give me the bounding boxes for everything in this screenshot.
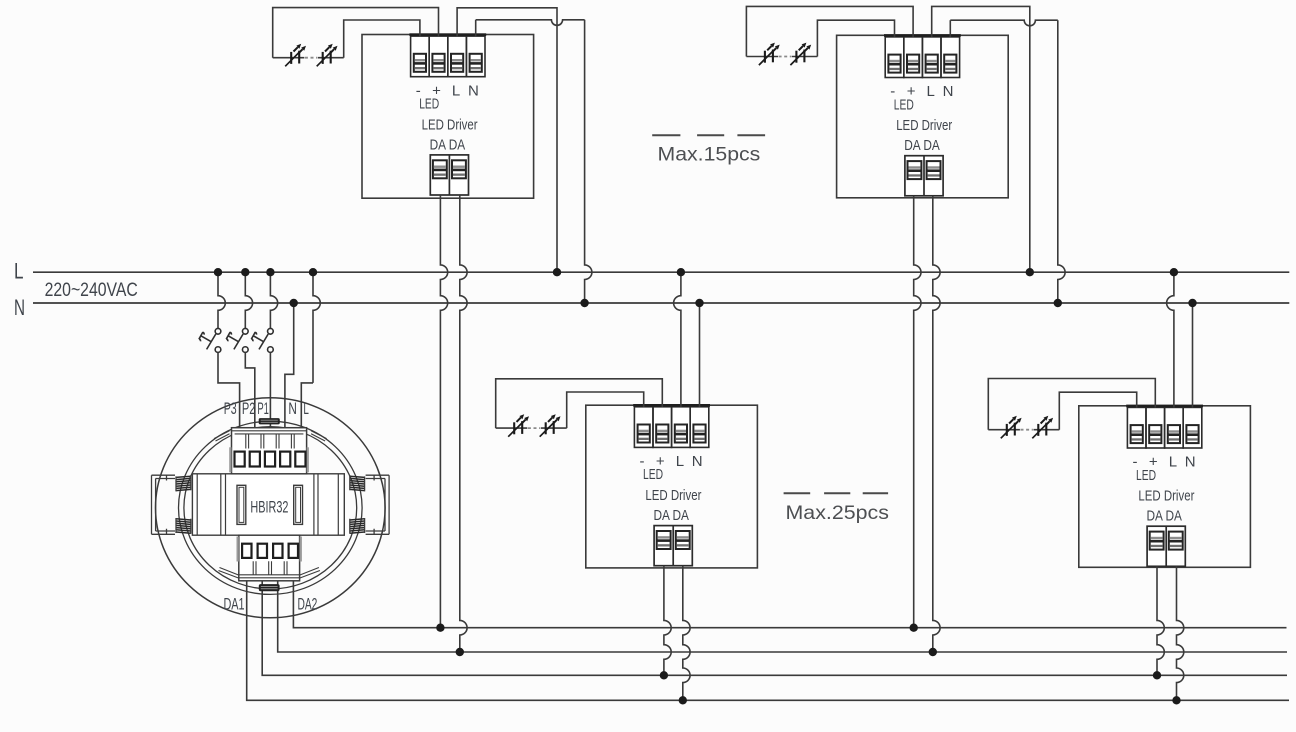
U3 DALI terminal block (DA DA) (654, 526, 692, 566)
wire switch S1 to sensor P3 terminal (218, 352, 240, 427)
U2 DALI terminal block (DA DA) (905, 156, 943, 196)
wire U2 LED+ loop (746, 6, 913, 56)
wire U2 LED- loop (817, 20, 894, 56)
wire U4 DA b down to DALI line 4 (1177, 566, 1184, 700)
svg-text:DA DA: DA DA (904, 137, 940, 154)
wire U2 L to bus (932, 6, 1030, 272)
svg-text:DA DA: DA DA (430, 136, 466, 153)
wire U1 DA a down to DALI line 1 (440, 195, 447, 628)
LED Driver U3 box (586, 405, 758, 568)
wire U2 DA b down to DALI line 2 (933, 196, 940, 652)
wire U3 DA a down to DALI line 3 (664, 566, 671, 676)
svg-text:HBIR32: HBIR32 (250, 498, 288, 517)
svg-text:LED: LED (894, 96, 914, 113)
U2 terminal labels - + L N (890, 83, 953, 100)
wire U1 N to bus (hops over L wire and L bus) (475, 20, 477, 37)
svg-text:N: N (288, 400, 297, 418)
LED Driver U1 box (362, 35, 534, 199)
wire U1 LED- loop (344, 20, 420, 58)
svg-text:LED: LED (1136, 467, 1156, 484)
L mains bus (33, 271, 1289, 273)
svg-text:P1: P1 (257, 400, 269, 418)
svg-text:L: L (303, 400, 309, 418)
junction dots on DALI line 1 (436, 624, 918, 632)
LED lamp string D7/D8 (U4) (988, 416, 1059, 439)
switch S3 (251, 328, 273, 352)
U1 terminal labels - + L N (416, 82, 479, 99)
svg-text:LED Driver: LED Driver (1138, 488, 1194, 505)
svg-text:DA1: DA1 (223, 596, 244, 614)
svg-text:220~240VAC: 220~240VAC (45, 280, 138, 301)
sensor central body (192, 474, 344, 535)
wire L bus to switch S2 (hops N bus) (245, 272, 252, 328)
junction dots on N bus (290, 299, 1197, 307)
sensor left mounting clip with springs (152, 475, 191, 534)
sensor lens slot right (294, 485, 303, 524)
wire U4 DA a down to DALI line 3 (1157, 566, 1164, 675)
svg-text:Max.25pcs: Max.25pcs (786, 502, 890, 524)
wire U2 DA a down to DALI line 1 (914, 196, 921, 628)
LED lamp string D1/D2 (U1) (273, 44, 344, 67)
wire U3 LED+ loop (496, 379, 663, 428)
switch S1 (199, 328, 221, 352)
wire L bus to switch S3 (hops N bus) (270, 272, 277, 328)
wire U4 N from bus (1192, 303, 1194, 408)
LED Driver U4 box (1079, 406, 1251, 568)
svg-text:LED Driver: LED Driver (645, 487, 701, 504)
sensor inner trim rings (178, 421, 362, 594)
wire U3 LED- loop (567, 392, 644, 428)
continuation dashes middle (784, 492, 889, 494)
wire U4 LED+ loop (988, 379, 1155, 430)
U1 mains terminal block (- + L N) (409, 33, 486, 76)
wire U1 L to bus (457, 8, 557, 272)
wire L bus to sensor L terminal (hops N bus) (313, 272, 320, 383)
wire switch S2 to sensor P2 terminal (245, 352, 255, 427)
U3 terminal labels - + L N (640, 453, 703, 470)
U4 terminal labels - + L N (1133, 454, 1196, 471)
continuation dashes top (652, 134, 765, 136)
svg-text:L: L (1169, 454, 1177, 471)
svg-text:DA DA: DA DA (1146, 508, 1182, 525)
wire N bus to sensor N terminal (285, 303, 294, 428)
svg-text:L: L (927, 83, 935, 100)
U4 mains terminal block (- + L N) (1126, 405, 1203, 448)
junction dots on DALI line 3 (660, 671, 1162, 679)
svg-text:LED Driver: LED Driver (896, 117, 952, 134)
LED Driver U2 box (837, 35, 1009, 198)
junction dots on DALI line 2 (456, 648, 937, 656)
LED lamp string D5/D6 (U3) (496, 414, 567, 437)
DALI line 1 (from sensor DA2 a) (293, 581, 1286, 628)
svg-text:LED Driver: LED Driver (422, 116, 478, 133)
U4 DALI terminal block (DA DA) (1147, 526, 1185, 566)
U2 mains terminal block (- + L N) (884, 34, 961, 77)
sensor HBIR32 outer ring (155, 398, 385, 618)
DALI line 3 (from sensor DA1 a) (262, 581, 1287, 676)
junction dots on DALI line 4 (679, 696, 1181, 704)
svg-text:DA DA: DA DA (653, 507, 689, 524)
sensor right mounting clip with springs (350, 475, 389, 534)
svg-text:P3: P3 (224, 400, 237, 418)
LED lamp string D3/D4 (U2) (746, 43, 817, 66)
U3 mains terminal block (- + L N) (633, 404, 710, 447)
DALI line 2 (from sensor DA2 b) (278, 581, 1287, 652)
svg-text:N: N (943, 83, 954, 100)
wire U4 L from bus (hops N bus) (1167, 272, 1174, 408)
wire U3 N from bus (699, 303, 701, 407)
wire U1 LED+ loop (273, 8, 439, 58)
sensor bottom terminal block (DA1 DA2) (237, 535, 302, 581)
switch S2 (226, 328, 248, 352)
U1 DALI terminal block (DA DA) (430, 155, 468, 195)
wire L bus to switch S1 (hops N bus) (218, 272, 225, 328)
svg-text:L: L (452, 82, 460, 99)
sensor bottom block chamfers (219, 568, 320, 579)
svg-text:N: N (1185, 454, 1196, 471)
sensor top connector tab (259, 418, 280, 424)
wire U3 DA b down to DALI line 4 (683, 566, 690, 701)
svg-text:P2: P2 (242, 400, 256, 418)
wire U3 L from bus (hops N bus) (674, 272, 681, 407)
svg-text:N: N (692, 453, 703, 470)
wire switch S3 to sensor P1 terminal (269, 352, 271, 427)
sensor lens slot left (237, 485, 246, 524)
svg-text:LED: LED (419, 96, 439, 113)
sensor top terminal block (P3 P2 P1 N L) (229, 428, 309, 474)
svg-text:N: N (468, 82, 479, 99)
sensor top block chamfers (214, 431, 327, 441)
svg-text:Max.15pcs: Max.15pcs (658, 144, 761, 166)
svg-text:N: N (14, 295, 25, 320)
wire U1 DA b down to DALI line 2 (460, 195, 467, 652)
junction dots on L bus (214, 268, 1178, 276)
N mains bus (33, 302, 1289, 304)
wire U4 LED- loop (1059, 392, 1136, 430)
svg-text:L: L (676, 453, 684, 470)
wire U2 N to bus (hops) (949, 20, 951, 37)
svg-text:DA2: DA2 (297, 596, 317, 614)
svg-text:LED: LED (643, 466, 663, 483)
DALI line 4 (from sensor DA1 b) (247, 581, 1289, 701)
svg-text:L: L (14, 259, 24, 284)
sensor bottom connector tab (259, 584, 280, 591)
